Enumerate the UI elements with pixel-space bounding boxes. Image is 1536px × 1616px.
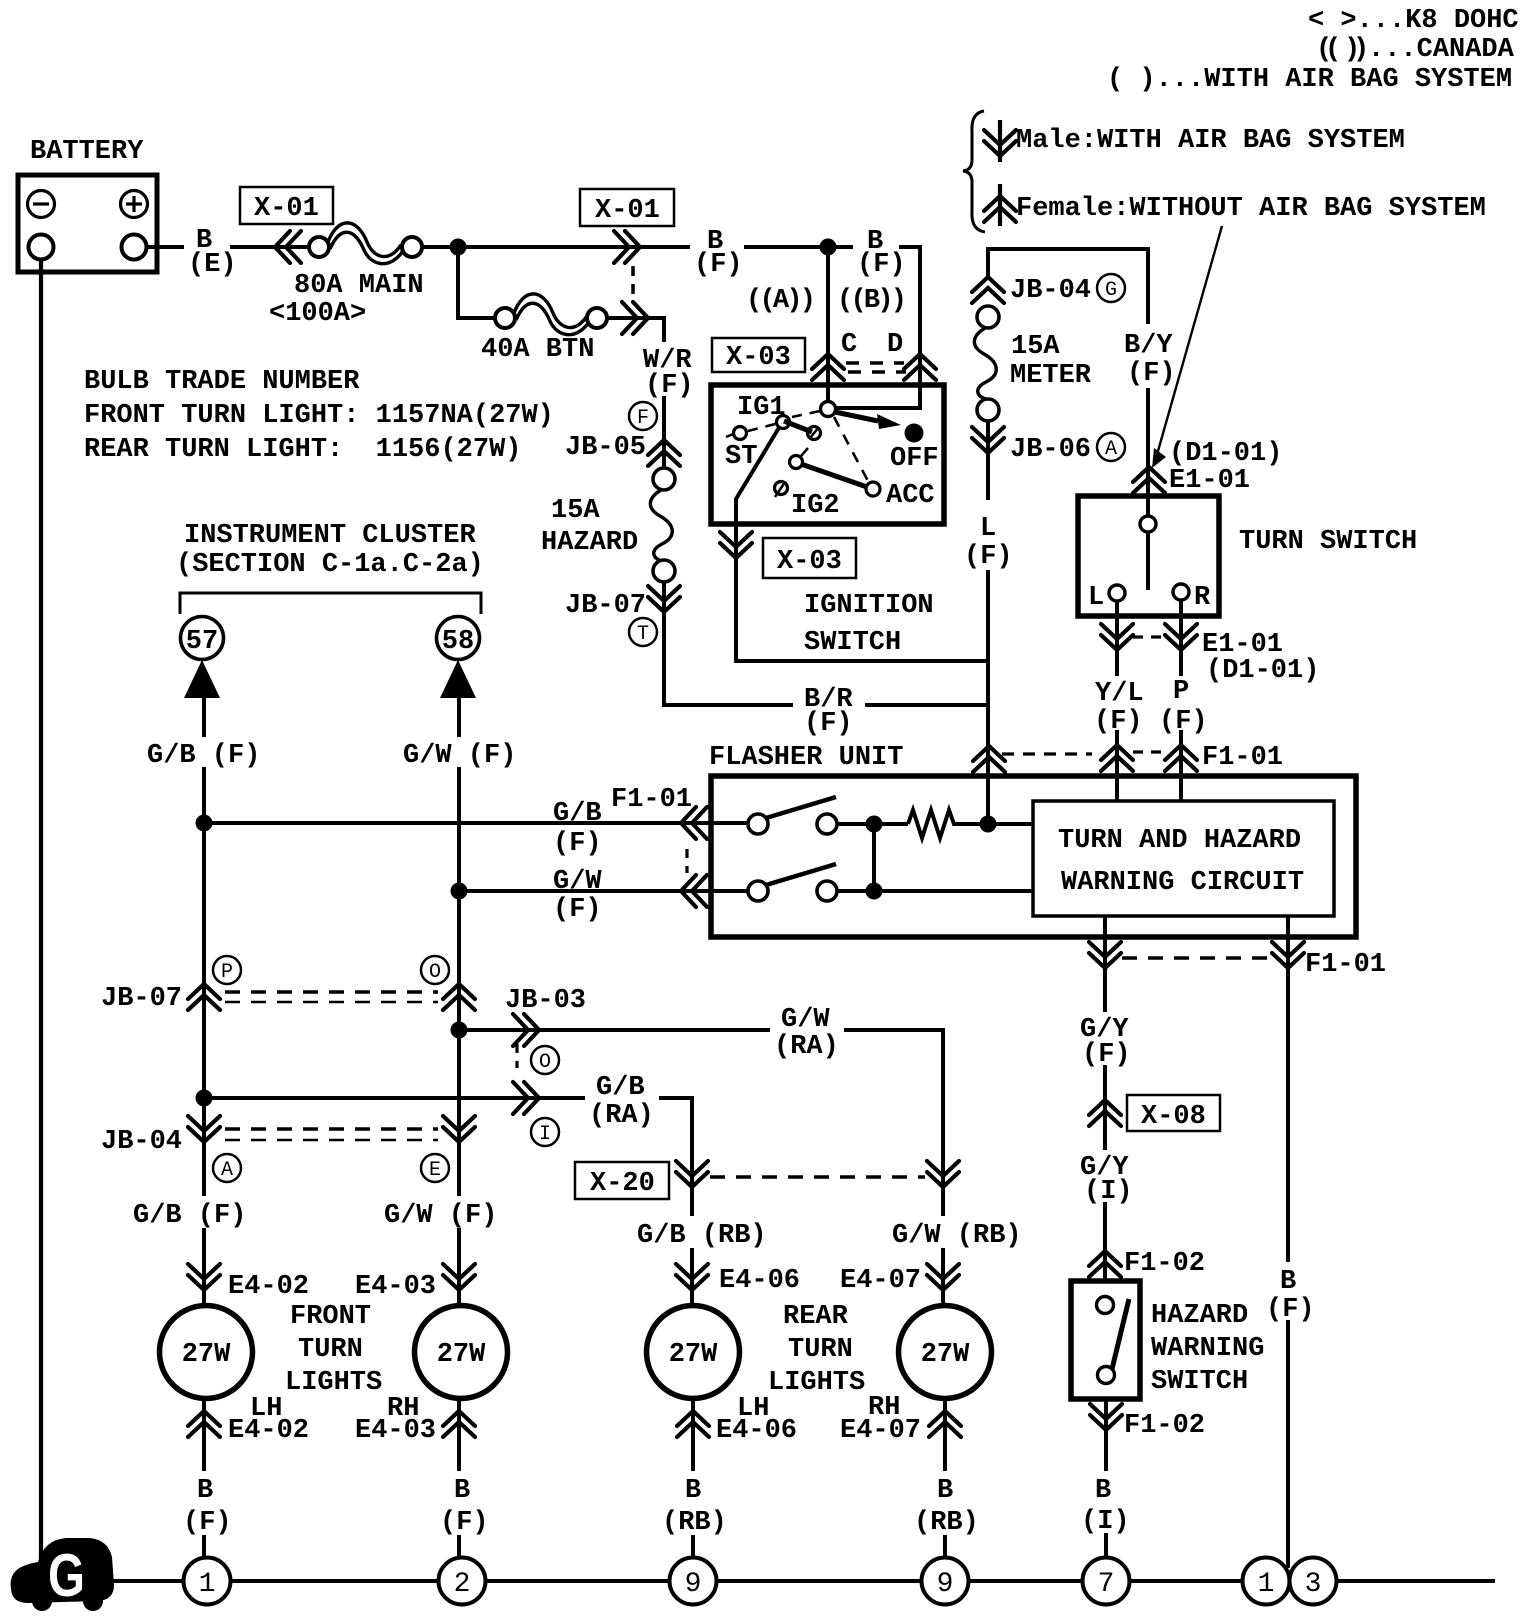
label Y/L (F) (1088, 676, 1144, 737)
indicator arrow 58 (440, 660, 476, 698)
circled O lower (531, 1046, 559, 1074)
connector F1-02 chevron lower (1090, 1404, 1122, 1430)
svg-text:E4-03: E4-03 (355, 1416, 436, 1446)
wire lamp LH rear down (691, 1399, 695, 1559)
svg-text:SWITCH: SWITCH (1151, 1367, 1248, 1397)
svg-text:<100A>: <100A> (269, 299, 366, 329)
svg-text:G: G (48, 1542, 85, 1609)
wire turn L down (1115, 601, 1119, 801)
svg-text:TURN SWITCH: TURN SWITCH (1239, 527, 1417, 557)
battery minus symbol (28, 191, 55, 218)
svg-text:): ) (1353, 35, 1369, 65)
wire meter fuse down (986, 421, 990, 663)
svg-text:G/W (F): G/W (F) (403, 741, 516, 771)
svg-text:G/B (RB): G/B (RB) (637, 1221, 767, 1251)
wire lamp RH front down (457, 1399, 461, 1559)
label B (F) lamp1 (178, 1471, 236, 1538)
wire turn R down (1179, 600, 1183, 801)
svg-text:G: G (1105, 279, 1117, 302)
svg-text:Male:WITH AIR BAG SYSTEM: Male:WITH AIR BAG SYSTEM (1016, 126, 1405, 156)
connector E1-01 chevrons L (1101, 624, 1133, 650)
svg-text:F1-01: F1-01 (1305, 950, 1386, 980)
ignition IG1 terminal (777, 416, 790, 429)
label G/W (F) flasher (553, 867, 602, 925)
svg-text:2: 2 (454, 1569, 471, 1600)
svg-text:FRONT TURN LIGHT: 1157NA(27W): FRONT TURN LIGHT: 1157NA(27W) (84, 401, 554, 431)
connector F1-01 chevron G/B (681, 807, 707, 839)
label HAZARD WARNING SWITCH (1151, 1301, 1264, 1397)
svg-text:(F): (F) (1127, 359, 1176, 389)
ground circle 1 right (1243, 1558, 1290, 1605)
label B (RB) lamp3 (658, 1471, 732, 1538)
ignition OFF dot (905, 424, 924, 443)
junction dot ignition feed (820, 239, 837, 256)
svg-text:7: 7 (1098, 1569, 1115, 1600)
svg-text:Y/L: Y/L (1095, 679, 1144, 709)
svg-text:P: P (1173, 677, 1189, 707)
svg-text:G/B (F): G/B (F) (133, 1201, 246, 1231)
wire flasher bottom right exit (1286, 916, 1290, 1568)
junction dot row2 (866, 883, 883, 900)
wire resistor to junction (956, 822, 1033, 826)
junction dot G/W RA (451, 1022, 468, 1039)
connector JB-04 chevrons left (188, 1116, 220, 1142)
wire cluster right down (457, 698, 461, 1308)
wire turn switch feed (1146, 388, 1150, 517)
svg-text:L: L (1088, 583, 1104, 613)
turn switch L terminal (1109, 585, 1125, 601)
hazard switch top contact (1097, 1297, 1114, 1314)
hazard switch bottom contact (1098, 1367, 1115, 1384)
ignition IG2 terminal (775, 482, 788, 498)
svg-text:JB-07: JB-07 (101, 984, 182, 1014)
ignition lever IG1 (784, 421, 812, 432)
svg-text:(E): (E) (188, 250, 237, 280)
svg-text:HAZARD: HAZARD (1151, 1301, 1248, 1331)
svg-text:G/W (F): G/W (F) (384, 1201, 497, 1231)
svg-text:(I): (I) (1081, 1507, 1130, 1537)
connector E4-02 chevron upper (188, 1264, 220, 1290)
ignition dashed ST link (748, 411, 820, 431)
wire ignition C feed (826, 247, 830, 404)
svg-text:F1-02: F1-02 (1124, 1249, 1205, 1279)
svg-text:X-03: X-03 (777, 547, 842, 577)
svg-text:27W: 27W (182, 1340, 231, 1370)
wire flasher bottom left exit (1103, 916, 1107, 1281)
connector X-03 label box lower (763, 538, 856, 578)
svg-text:B: B (937, 1476, 953, 1506)
svg-text:(F): (F) (804, 709, 853, 739)
svg-text:JB-07: JB-07 (565, 591, 646, 621)
ground circle 3 (1290, 1558, 1337, 1605)
label G/Y (I) (1076, 1150, 1133, 1207)
wire flasher row1 (837, 822, 908, 826)
connector F1-01 chevron feed (973, 746, 1005, 772)
label G/B (F) upper (142, 737, 260, 771)
connector JB-06 A chevrons (972, 427, 1004, 453)
label B/Y (F) (1118, 329, 1176, 389)
wire lamp RH rear down (943, 1399, 947, 1559)
svg-text:9: 9 (685, 1569, 702, 1600)
connector X-03 chevron lower (720, 532, 752, 558)
ground circle 1 (184, 1558, 231, 1605)
connector JB-07 chevrons right (443, 984, 475, 1010)
lamp front RH (415, 1306, 508, 1399)
label G/B (F) mid (128, 1196, 246, 1231)
connector X-01 label box right (580, 189, 674, 226)
connector E4-02 chevron lower (188, 1411, 220, 1437)
svg-text:80A MAIN: 80A MAIN (294, 271, 424, 301)
label B (F) lamp2 (435, 1471, 493, 1538)
svg-text:57: 57 (186, 627, 218, 657)
circled A (213, 1154, 241, 1182)
battery positive terminal (122, 235, 147, 260)
svg-text:ST: ST (725, 442, 757, 472)
connector F1-01 dashed link left (685, 849, 688, 873)
svg-text:G/W: G/W (553, 867, 602, 897)
connector X-01 label box left (240, 187, 333, 224)
label G/B (RA) (585, 1072, 659, 1131)
connector JB-07 dashed links (225, 992, 438, 1002)
wire G/W into flasher (459, 889, 748, 893)
turn switch lever (1146, 533, 1150, 590)
connector F1-01 dashed links (1002, 752, 1165, 754)
connector E4-03 chevron upper (443, 1264, 475, 1290)
svg-text:X-01: X-01 (254, 194, 319, 224)
wire B/R to flasher (664, 703, 988, 707)
circled E (421, 1154, 449, 1182)
wire 40A branch (458, 247, 496, 318)
fuse 15A METER (974, 306, 999, 421)
battery plus symbol (121, 191, 148, 218)
cluster bracket (180, 593, 481, 614)
junction dot row1 (866, 816, 883, 833)
ground circle 9 right (922, 1558, 969, 1605)
svg-text:B/Y: B/Y (1124, 331, 1173, 361)
turn switch box (1078, 496, 1219, 616)
ignition common terminal (821, 402, 836, 417)
svg-text:1: 1 (1258, 1569, 1275, 1600)
svg-text:A: A (1105, 438, 1117, 461)
svg-text:G/W (RB): G/W (RB) (892, 1221, 1022, 1251)
svg-text:40A BTN: 40A BTN (481, 335, 594, 365)
svg-text:B: B (454, 1476, 470, 1506)
svg-text:E4-07: E4-07 (840, 1416, 921, 1446)
wire cluster left down (202, 698, 206, 1308)
svg-text:E1-01: E1-01 (1169, 466, 1250, 496)
wire IG1 diagonal (736, 426, 780, 525)
label B/R (F) (793, 684, 865, 739)
label G/W (F) upper (398, 737, 516, 771)
connector E1-01 dashed link (1133, 635, 1165, 638)
svg-text:BULB TRADE NUMBER: BULB TRADE NUMBER (84, 367, 360, 397)
svg-text:(F): (F) (1159, 707, 1208, 737)
label B (I) (1078, 1471, 1130, 1537)
svg-text:REAR: REAR (783, 1302, 849, 1332)
wire G/B into flasher (204, 821, 748, 825)
svg-text:E4-06: E4-06 (716, 1416, 797, 1446)
circled T junction block (629, 618, 657, 646)
svg-text:(F): (F) (1082, 1040, 1131, 1070)
svg-text:< >...K8 DOHC: < >...K8 DOHC (1308, 6, 1519, 36)
svg-text:(: ( (1325, 35, 1341, 65)
cluster pin 57 (181, 617, 224, 660)
wire 40A to W/R down (607, 318, 664, 470)
connector E4-07 chevron lower (929, 1411, 961, 1437)
label G/W (F) mid (379, 1196, 497, 1231)
svg-text:FRONT: FRONT (290, 1302, 371, 1332)
connector X-20 chevron left (676, 1161, 708, 1187)
ignition IG2 upper terminal (790, 448, 809, 469)
connector JB-07 chevrons left (188, 984, 220, 1010)
svg-text:WARNING: WARNING (1151, 1334, 1264, 1364)
svg-text:(F): (F) (553, 895, 602, 925)
svg-text:JB-06: JB-06 (1010, 435, 1091, 465)
svg-text:F1-01: F1-01 (611, 785, 692, 815)
connector E4-06 chevron lower (677, 1411, 709, 1437)
svg-text:F1-02: F1-02 (1124, 1411, 1205, 1441)
svg-text:3: 3 (1305, 1569, 1322, 1600)
circled I (531, 1118, 559, 1146)
ignition ACC terminal (866, 482, 880, 496)
fuse 40A BTN (495, 294, 607, 335)
svg-text:L: L (980, 514, 996, 544)
wire hazard fuse down (662, 582, 666, 707)
flasher switch 2 (748, 864, 837, 901)
connector JB-07 chevrons hazard (648, 586, 680, 612)
svg-text:G/B (F): G/B (F) (147, 741, 260, 771)
svg-text:(D1-01): (D1-01) (1169, 439, 1282, 469)
junction dot row1 right (980, 816, 997, 833)
svg-text:58: 58 (442, 627, 474, 657)
svg-text:D: D (887, 330, 903, 360)
ground circle 7 (1083, 1558, 1130, 1605)
junction dot G/B RA (196, 1090, 213, 1107)
connector F1-01 chevron bottom left (1089, 942, 1121, 968)
label B (E) (184, 226, 237, 280)
indicator arrow 57 (184, 660, 220, 698)
wire battery positive to fuse bus (146, 245, 311, 249)
connector X-01 chevrons on bus (275, 231, 301, 263)
svg-text:JB-05: JB-05 (565, 433, 646, 463)
svg-text:X-20: X-20 (590, 1169, 655, 1199)
ground bus (110, 1579, 1495, 1583)
connector JB-04 chevrons right (443, 1116, 475, 1142)
svg-text:E4-02: E4-02 (228, 1416, 309, 1446)
svg-text:B: B (197, 1476, 213, 1506)
label B (F) first (690, 227, 744, 280)
wire flasher row2 (837, 889, 1033, 893)
svg-text:A: A (221, 1159, 233, 1182)
junction dot G/W (451, 883, 468, 900)
circled F junction block (629, 402, 657, 430)
svg-text:LIGHTS: LIGHTS (768, 1368, 865, 1398)
svg-text:((A)): ((A)) (746, 286, 816, 316)
hazard warning switch box (1071, 1281, 1140, 1399)
svg-text:(RA): (RA) (774, 1032, 839, 1062)
flasher unit box (711, 776, 1356, 937)
svg-text:27W: 27W (921, 1340, 970, 1370)
turn and hazard warning circuit box (1033, 801, 1334, 916)
svg-text:((B)): ((B)) (837, 286, 907, 316)
battery box (18, 175, 157, 272)
svg-text:REAR TURN LIGHT: 1156(27W): REAR TURN LIGHT: 1156(27W) (84, 435, 521, 465)
svg-text:BATTERY: BATTERY (30, 137, 144, 167)
svg-text:C: C (841, 330, 857, 360)
connector F1-01 chevron G/W (681, 875, 707, 907)
svg-text:JB-03: JB-03 (505, 986, 586, 1016)
svg-text:X-03: X-03 (726, 343, 791, 373)
svg-text:X-01: X-01 (595, 196, 660, 226)
svg-text:(D1-01): (D1-01) (1206, 656, 1319, 686)
svg-text:(I): (I) (1084, 1177, 1133, 1207)
circled P (213, 956, 241, 984)
svg-text:SWITCH: SWITCH (804, 628, 901, 658)
junction dot main bus (450, 239, 467, 256)
svg-text:WARNING CIRCUIT: WARNING CIRCUIT (1061, 868, 1304, 898)
svg-text:METER: METER (1010, 361, 1092, 391)
svg-text:TURN: TURN (788, 1335, 853, 1365)
svg-text:...CANADA: ...CANADA (1368, 35, 1515, 65)
connector E4-07 chevron upper (927, 1264, 959, 1290)
cluster pin 58 (437, 617, 480, 660)
svg-text:I: I (539, 1123, 551, 1146)
svg-text:HAZARD: HAZARD (541, 528, 638, 558)
legend female connector symbol (984, 184, 1016, 226)
svg-text:E4-02: E4-02 (228, 1272, 309, 1302)
svg-text:INSTRUMENT CLUSTER: INSTRUMENT CLUSTER (184, 521, 476, 551)
svg-text:IG2: IG2 (791, 491, 840, 521)
circled A meter (1097, 433, 1125, 461)
legend male connector symbol (984, 120, 1016, 162)
svg-text:15A: 15A (1011, 332, 1060, 362)
svg-text:TURN AND HAZARD: TURN AND HAZARD (1058, 826, 1301, 856)
meter feed bracket (988, 249, 1148, 324)
ground circle 2 (439, 1558, 486, 1605)
label B (F) right (1262, 1262, 1315, 1325)
fuse 15A HAZARD (650, 468, 675, 582)
svg-text:P: P (221, 961, 233, 984)
label G/W (RB) (885, 1216, 1022, 1251)
svg-text:(F): (F) (553, 829, 602, 859)
connector X-20 chevron right (927, 1161, 959, 1187)
connector E4-03 chevron lower (443, 1411, 475, 1437)
svg-text:F: F (637, 407, 649, 430)
connector X-20 dashed link (710, 1175, 925, 1178)
connector JB-03 chevrons lower (513, 1082, 539, 1114)
ignition switch box (711, 385, 944, 524)
connector JB-03 dashed link (515, 1044, 518, 1068)
svg-text:(F): (F) (1266, 1295, 1315, 1325)
wire battery negative to ground (39, 259, 43, 1572)
wire junction link vertical (872, 824, 876, 891)
svg-text:IGNITION: IGNITION (804, 591, 934, 621)
wire IG1 exit down (736, 524, 988, 661)
connector F1-01 chevrons L (1101, 745, 1133, 771)
resistor (908, 810, 958, 838)
svg-text:OFF: OFF (890, 444, 939, 474)
svg-text:(F): (F) (694, 250, 743, 280)
legend brace (963, 111, 985, 232)
connector F1-01 chevron bottom right (1272, 942, 1304, 968)
junction dot G/B (196, 815, 213, 832)
ground car symbol (11, 1538, 114, 1611)
svg-text:X-08: X-08 (1141, 1102, 1206, 1132)
svg-text:F1-01: F1-01 (1202, 743, 1283, 773)
svg-text:15A: 15A (551, 496, 600, 526)
svg-text:( )...WITH AIR BAG SYSTEM: ( )...WITH AIR BAG SYSTEM (1107, 65, 1512, 95)
connector X-20 label box (575, 1162, 669, 1199)
turn switch R terminal (1173, 584, 1189, 600)
svg-text:B: B (1280, 1267, 1296, 1297)
svg-text:E4-07: E4-07 (840, 1266, 921, 1296)
svg-text:G/B: G/B (596, 1073, 645, 1103)
svg-text:JB-04: JB-04 (101, 1127, 182, 1157)
label REAR TURN LIGHTS (768, 1302, 865, 1398)
label W/R (F) (638, 342, 702, 401)
svg-text:T: T (637, 623, 649, 646)
wire bus junction to X-01 right (422, 245, 922, 249)
ground circle 9 left (670, 1558, 717, 1605)
lamp front LH (160, 1306, 253, 1399)
label P (F) (1157, 676, 1208, 737)
svg-text:(RB): (RB) (914, 1508, 979, 1538)
wire G/W RA (459, 1030, 943, 1308)
battery negative terminal (29, 235, 54, 260)
svg-text:(F): (F) (440, 1508, 489, 1538)
label G/W (RA) (770, 1005, 844, 1062)
connector JB-04 G chevrons (972, 277, 1004, 303)
connector E4-06 chevron upper (676, 1264, 708, 1290)
svg-text:1: 1 (199, 1569, 216, 1600)
connector X-01 right chevrons (614, 231, 640, 263)
label G/Y (F) (1076, 1012, 1132, 1070)
connector JB-04 dashed links (225, 1129, 438, 1140)
circled G (1097, 274, 1125, 302)
label G/B (RB) (630, 1216, 767, 1251)
label G/B (F) flasher (553, 799, 602, 859)
svg-text:B: B (685, 1476, 701, 1506)
svg-text:E: E (429, 1159, 441, 1182)
ignition dashed ACC link (834, 417, 868, 481)
svg-text:Female:WITHOUT AIR BAG SYSTEM: Female:WITHOUT AIR BAG SYSTEM (1016, 194, 1486, 224)
connector F1-01 chevrons R (1165, 745, 1197, 771)
svg-text:27W: 27W (437, 1340, 486, 1370)
connector JB-05 chevrons (648, 440, 680, 466)
turn switch common terminal (1140, 516, 1156, 532)
ignition ST terminal (726, 427, 747, 440)
svg-text:JB-04: JB-04 (1010, 276, 1091, 306)
connector E1-01 chevrons upper (1133, 467, 1165, 493)
label B (RB) lamp4 (910, 1471, 984, 1538)
connector X-03 label box upper (712, 338, 805, 373)
svg-text:O: O (539, 1051, 551, 1074)
svg-text:(SECTION C-1a.C-2a): (SECTION C-1a.C-2a) (176, 550, 484, 580)
arrow from female note (1152, 226, 1222, 468)
flasher switch 1 (748, 797, 837, 834)
fuse 80A MAIN (309, 223, 422, 264)
svg-text:B: B (1095, 1476, 1111, 1506)
svg-text:G/W: G/W (781, 1005, 830, 1035)
ignition mid contact (808, 427, 821, 440)
connector X-03 chevron D (904, 354, 936, 380)
hazard switch lever (1112, 1299, 1129, 1369)
connector 40A chevrons (622, 302, 648, 334)
svg-text:E4-06: E4-06 (719, 1266, 800, 1296)
svg-text:O: O (429, 961, 441, 984)
svg-text:27W: 27W (669, 1340, 718, 1370)
ignition lever IG2-ACC (801, 464, 867, 487)
